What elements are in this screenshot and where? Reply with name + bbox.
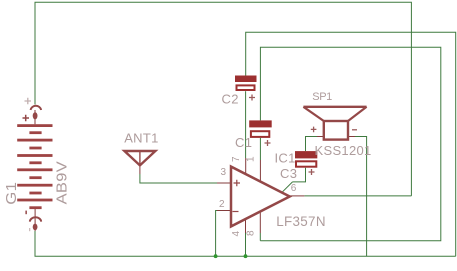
svg-text:IC1: IC1 [275,151,296,166]
svg-text:AB9V: AB9V [55,161,71,205]
svg-text:1: 1 [246,156,257,162]
svg-text:C1: C1 [235,135,252,150]
svg-text:SP1: SP1 [312,91,332,103]
svg-text:C2: C2 [222,92,239,107]
svg-text:KSS1201: KSS1201 [315,143,372,158]
svg-text:3: 3 [221,167,227,178]
svg-text:4: 4 [231,231,242,237]
svg-text:8: 8 [246,230,257,236]
svg-text:6: 6 [291,183,297,194]
svg-text:LF357N: LF357N [276,214,326,229]
svg-text:C3: C3 [280,166,297,181]
svg-text:G1: G1 [4,182,20,205]
svg-text:2: 2 [219,199,225,210]
svg-text:ANT1: ANT1 [124,130,158,145]
svg-text:7: 7 [231,156,242,162]
